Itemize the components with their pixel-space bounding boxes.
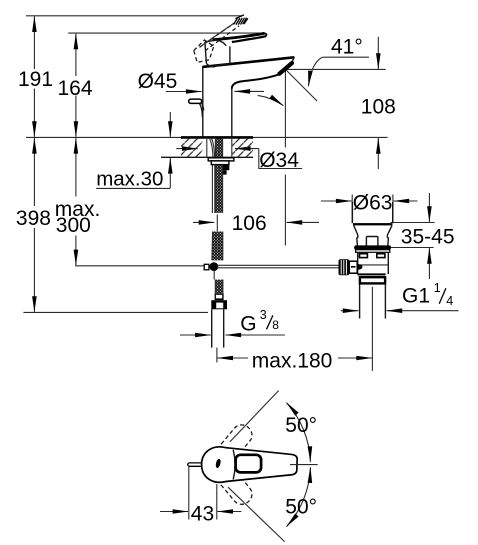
spout angle arc arrow <box>258 95 284 105</box>
braided hose lower section <box>215 280 223 294</box>
pop-up rod below deck <box>212 165 214 213</box>
drain locknut <box>360 277 385 283</box>
svg-text:35-45: 35-45 <box>401 226 455 249</box>
dimension G3/8 <box>180 308 285 336</box>
drain pivot ball <box>354 264 363 270</box>
svg-text:G1: G1 <box>402 284 430 307</box>
braided hose upper section <box>215 165 222 213</box>
hoses curving in hole <box>210 138 215 158</box>
reference line handle top (164) <box>68 32 265 34</box>
drain adjusting knob <box>339 259 358 275</box>
svg-text:Ø34: Ø34 <box>259 149 299 172</box>
50 degree ray lower <box>228 487 285 541</box>
rod end square <box>204 264 209 270</box>
svg-text:G: G <box>240 313 256 336</box>
mounting nut <box>211 161 229 165</box>
41 degree diagonal line <box>286 69 318 101</box>
drain body bottom edge <box>357 273 385 275</box>
mounting washer <box>208 158 234 161</box>
hose connection tube G3/8 <box>212 309 224 347</box>
svg-text:3: 3 <box>260 308 267 322</box>
pop-up rod knob at back <box>189 99 204 117</box>
svg-text:Ø63: Ø63 <box>353 192 393 215</box>
svg-text:max.30: max.30 <box>96 168 163 191</box>
svg-text:164: 164 <box>58 77 93 100</box>
dimension Ø45 <box>138 70 202 93</box>
faucet top edge to spout tip <box>202 57 294 67</box>
top view: handle body <box>202 447 298 482</box>
drain plug top <box>366 237 378 246</box>
50 degree arc lower <box>287 467 311 526</box>
svg-text:1: 1 <box>434 281 441 295</box>
svg-text:300: 300 <box>56 214 91 237</box>
spout tip edge <box>291 57 294 63</box>
svg-text:4: 4 <box>446 294 453 308</box>
svg-text:8: 8 <box>272 318 279 332</box>
top view: dashed handle position rotated down <box>215 465 256 508</box>
handle lever solid <box>213 33 267 42</box>
deck bottom edge <box>161 156 253 158</box>
dimension max.180 <box>217 350 372 373</box>
drain body <box>358 252 389 274</box>
top view: pop-up rod stub <box>188 463 203 466</box>
top view: lever cutout <box>236 455 262 473</box>
spout aerator <box>279 63 292 74</box>
svg-text:108: 108 <box>361 95 396 118</box>
svg-text:398: 398 <box>16 207 51 230</box>
dimension 106 <box>193 212 319 235</box>
spout angle arrow (straight) <box>235 90 265 92</box>
dimension G1 1/4 <box>341 281 459 311</box>
svg-text:41°: 41° <box>331 35 363 58</box>
deck hole edges <box>207 137 232 157</box>
rod below ball <box>213 271 215 280</box>
dimension 108 <box>361 37 396 169</box>
horizontal pop-up rod to drain <box>217 265 339 268</box>
pop-up rod ball junction <box>210 262 219 271</box>
drain seal washer <box>356 250 390 253</box>
reference line deck level <box>26 136 388 138</box>
threaded shank upper <box>215 138 222 158</box>
reference line top (191) <box>26 15 242 17</box>
handle body <box>205 40 230 67</box>
drain rubber seal <box>354 245 391 249</box>
faucet body column <box>203 66 232 137</box>
dimension Ø63 <box>321 192 418 224</box>
handle dashed rotated body <box>194 40 214 62</box>
deck slab hatched left <box>181 138 202 157</box>
reference line hose end (max300) <box>75 265 205 267</box>
dimension 41 degrees <box>308 35 369 86</box>
deck slab hatched right <box>232 138 253 157</box>
rod segment in break gap <box>216 215 218 232</box>
dimension 398 <box>16 138 51 312</box>
step blocks <box>222 165 229 175</box>
dimension 43 <box>160 467 241 526</box>
svg-text:106: 106 <box>232 212 267 235</box>
spout underside curve <box>232 74 279 88</box>
dimension max.30 deck thickness <box>96 112 170 191</box>
svg-text:191: 191 <box>18 68 53 91</box>
svg-text:50°: 50° <box>285 414 317 437</box>
svg-text:Ø45: Ø45 <box>138 70 178 93</box>
braided hose middle section <box>212 232 223 261</box>
top view: cap separation line <box>233 450 235 480</box>
50 degree ray upper <box>230 391 279 442</box>
spout outlet extension line <box>284 71 286 246</box>
drain taper neck <box>354 225 392 245</box>
deck top edge thick <box>181 136 253 139</box>
50 degree arc upper <box>287 403 311 462</box>
41 degree reference horizontal from spout tip <box>286 68 386 70</box>
dimension Ø34 with leader <box>176 149 302 173</box>
drain centre line <box>371 287 373 371</box>
hose end fitting <box>211 294 227 310</box>
centre line right of handle <box>290 464 318 466</box>
dimension 164 <box>58 34 93 137</box>
svg-text:max.180: max.180 <box>252 350 333 373</box>
dimension 191 <box>18 16 53 136</box>
drain flange Ø63 <box>352 202 392 225</box>
top view: teardrop mark <box>215 458 222 468</box>
reference line bottom (398) <box>23 311 208 313</box>
drain tailpipe G1 1/4 <box>360 284 386 318</box>
top view: dashed handle position rotated up <box>215 421 256 464</box>
svg-text:50°: 50° <box>285 495 317 518</box>
handle raised tip hatch <box>234 15 248 25</box>
hose centre line extension <box>216 348 218 363</box>
dimension max.300 <box>55 138 101 265</box>
svg-text:43: 43 <box>191 503 214 526</box>
dimension 35-45 <box>391 193 455 279</box>
handle raised dashed position <box>200 23 240 51</box>
